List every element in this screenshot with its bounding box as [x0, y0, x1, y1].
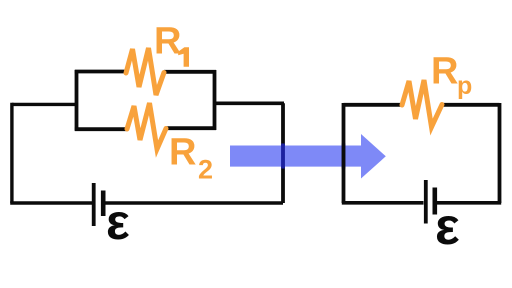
wire parallel-box bottom edge right segment: [166, 126, 216, 130]
wire right-circuit left vertical: [342, 103, 346, 203]
wire left-circuit right vertical: [281, 103, 285, 203]
wire overlap left-circuit right vertical through arrow: [281, 144, 285, 169]
resistor Rp zigzag: [402, 80, 442, 127]
svg-text:R: R: [169, 132, 196, 174]
wire parallel-box top edge left segment: [75, 70, 126, 74]
battery B2 long plate: [424, 180, 428, 224]
arrow equivalence: [230, 134, 386, 179]
resistor R1 zigzag: [126, 48, 164, 95]
wire left-circuit bottom left segment: [10, 201, 92, 205]
svg-text:R: R: [431, 51, 458, 93]
wire right-circuit right vertical: [498, 103, 502, 203]
wire right mid connecting parallel box to right vertical: [215, 102, 285, 106]
svg-text:ε: ε: [106, 194, 130, 250]
resistor R2 zigzag: [127, 103, 166, 149]
wire parallel-box right edge: [213, 70, 217, 130]
wire right-circuit top edge left segment: [344, 103, 403, 107]
wire overlap right-circuit left vertical through arrow: [342, 144, 346, 169]
wire right-circuit bottom left segment: [342, 201, 424, 205]
wire parallel-box top edge right segment: [164, 70, 216, 74]
wire left-circuit left vertical: [10, 103, 13, 203]
wire right-circuit top edge right segment: [442, 103, 500, 107]
wire left-circuit top horizontal: [12, 103, 77, 106]
battery B2 short plate: [432, 188, 437, 215]
wire parallel-box left edge: [75, 70, 79, 131]
battery B1 long plate: [92, 183, 96, 226]
wire parallel-box bottom edge left segment: [75, 127, 127, 131]
wire right-circuit bottom right segment: [437, 201, 501, 205]
svg-text:p: p: [457, 72, 472, 100]
svg-text:ε: ε: [435, 198, 460, 256]
svg-text:2: 2: [198, 155, 213, 185]
wire left-circuit bottom right segment: [106, 201, 284, 205]
battery B1 short plate: [101, 191, 106, 217]
resistor R1 subscript 1: [178, 47, 189, 67]
svg-text:R: R: [154, 21, 181, 63]
